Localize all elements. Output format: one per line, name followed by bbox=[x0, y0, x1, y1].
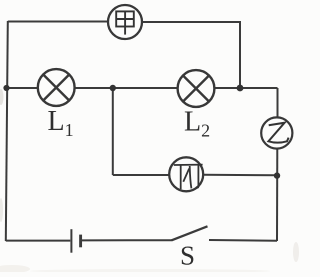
wire: left vertical bbox=[6, 21, 8, 241]
wire: middle branch vertical bbox=[112, 88, 114, 175]
wire: top-loop right vertical bbox=[239, 21, 241, 88]
meter bing (丙) circle bbox=[169, 157, 203, 191]
wire: branch to meter bing bbox=[113, 174, 170, 176]
wire: meter yi down to bottom bbox=[276, 149, 278, 242]
wire: meter bing to right wire bbox=[203, 174, 277, 177]
node: top-loop right junction bbox=[237, 85, 244, 92]
node: right wire junction bbox=[274, 172, 280, 178]
wire: top left to meter jia bbox=[8, 21, 108, 23]
switch blade bbox=[172, 226, 208, 240]
battery long plate bbox=[70, 229, 72, 253]
lamp L2 bbox=[178, 70, 215, 107]
wire: right corner down to meter yi bbox=[277, 88, 279, 118]
lamp L1 bbox=[38, 69, 75, 106]
faint scan smudges bbox=[0, 89, 299, 273]
wire: switch contact to bottom-right corner bbox=[209, 239, 277, 242]
wire: bottom left to battery bbox=[6, 240, 71, 242]
wire: L2 to right corner bbox=[215, 87, 278, 89]
node: middle branch junction bbox=[110, 85, 116, 91]
wire: meter jia to top-right corner bbox=[142, 21, 240, 23]
wire: main branch left segment bbox=[6, 87, 38, 89]
meter jia character 甲 bbox=[116, 11, 134, 34]
meter yi (乙) circle bbox=[261, 117, 292, 148]
meter jia (甲) circle bbox=[108, 5, 142, 39]
svg-text:S: S bbox=[180, 241, 195, 271]
wire: battery to switch pivot bbox=[82, 239, 172, 241]
meter bing character 丙 bbox=[174, 165, 203, 190]
meter yi character 乙 bbox=[268, 123, 288, 143]
node: main wire left junction bbox=[3, 85, 9, 91]
wire: L1 to L2 segment bbox=[75, 87, 178, 89]
battery short plate bbox=[79, 235, 82, 248]
